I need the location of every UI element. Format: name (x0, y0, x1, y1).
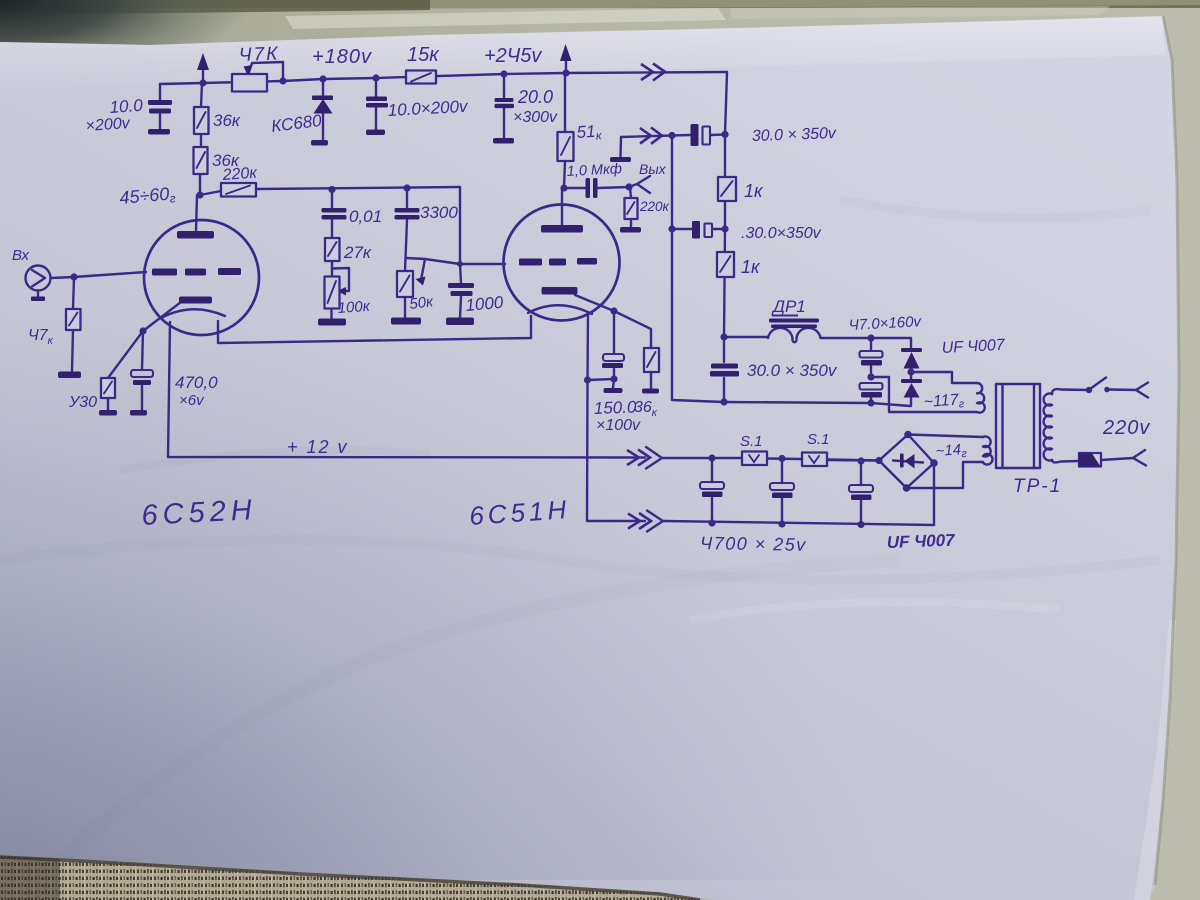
chevrons B+ rail (641, 64, 653, 80)
wire heater link V2 to V1 (218, 316, 531, 343)
doubler cap B solid plate (861, 392, 882, 398)
zener KC680 cathode bar (312, 96, 333, 101)
svg-text:У30: У30 (68, 394, 97, 411)
wire B+ top rail (160, 72, 727, 84)
diode D1 bar and triangle (901, 348, 922, 352)
potentiometer 100k wiper (332, 268, 349, 291)
plug fork bottom (1133, 450, 1146, 466)
resistor 36k V2 body (644, 348, 659, 372)
pot 100k wiper arrowhead (337, 287, 346, 296)
svg-text:1,0 Мкф: 1,0 Мкф (566, 161, 622, 180)
svg-text:Вых: Вых (639, 161, 667, 177)
coupling cap 1.0Mkf plates (586, 178, 591, 198)
paper creases / shading (0, 540, 1160, 580)
cap C10 hollow plate (700, 482, 724, 489)
svg-text:150.0: 150.0 (593, 398, 637, 418)
arrow B+ left head (197, 53, 209, 70)
output stub Vykh (629, 176, 650, 193)
svg-text:ТР-1: ТР-1 (1013, 476, 1062, 497)
svg-text:220к: 220к (639, 199, 670, 214)
wire 220k rail down to grid node (459, 187, 461, 264)
ground bar output line (610, 157, 631, 162)
capacitor C5 3300 stems (405, 188, 407, 271)
chevrons heater bottom (628, 514, 640, 529)
svg-text:S.1: S.1 (807, 431, 830, 448)
pot 50k wiper arrowhead (416, 277, 426, 286)
wire right column drop (724, 72, 727, 362)
ground bar C2 (366, 130, 385, 136)
pot 47K wiper arrowhead (244, 65, 253, 76)
node B+ arrow left stem (202, 68, 204, 83)
cap 30.0-1 hollow plate (703, 127, 711, 145)
ground bar R9 36k (642, 389, 659, 394)
resistor R6 47k input body (66, 309, 81, 330)
cap C7 150.0 hollow plate (603, 354, 624, 361)
potentiometer 47K wiper (249, 62, 283, 80)
svg-text:UF Ч007: UF Ч007 (941, 337, 1006, 357)
tube V1 anode lead (196, 195, 197, 231)
wire 14v winding bottom to bridge bottom (907, 462, 984, 488)
tube V2 cathode diagonal (575, 295, 614, 311)
diode D1 stems (910, 338, 912, 372)
svg-text:1000: 1000 (465, 293, 505, 315)
svg-text:30.0 × 350v: 30.0 × 350v (747, 361, 838, 380)
capacitor C2 plates (366, 97, 387, 102)
wire secondary top lead (1052, 389, 1088, 394)
wire switch to plug (1109, 388, 1137, 391)
potentiometer 100k body (325, 277, 340, 309)
potentiometer 47K body (232, 74, 267, 92)
fuse S.1 first body (742, 452, 767, 466)
zener KC680 stems (322, 79, 324, 140)
plug fork heater bottom (647, 511, 663, 532)
resistor R7 U30 lead (108, 331, 143, 410)
ground bar C3 (493, 138, 514, 144)
svg-text:50к: 50к (408, 293, 435, 313)
wire V2 heater to bottom rail (587, 315, 645, 521)
ground bar R5 220k output (620, 227, 641, 233)
capacitor C12 4700x25v stems (860, 461, 862, 525)
wire PSU common rail (724, 402, 910, 406)
capacitor C1 10.0x200v stem (159, 84, 161, 129)
cap C11 solid plate (772, 493, 793, 499)
svg-text:×300v: ×300v (513, 109, 558, 126)
potentiometer 50k body (397, 271, 413, 297)
svg-text:220к: 220к (221, 165, 259, 185)
cap 30.0-1 solid plate (691, 124, 699, 146)
diode D2 bar and triangle (901, 379, 922, 383)
ground bar C1 (148, 129, 170, 135)
resistor diagonal marks (411, 73, 431, 82)
wire cap C7 bottom to heater line (588, 379, 615, 380)
svg-text:+2Ч5v: +2Ч5v (484, 45, 542, 67)
fuse 220v body (1079, 453, 1101, 467)
cap C8 cathode hollow plate (131, 370, 153, 377)
diode D2 stems (910, 372, 912, 406)
cap C7 150.0 solid plate (602, 363, 623, 368)
winding 220v secondary (1044, 393, 1052, 460)
svg-text:1к: 1к (744, 181, 764, 201)
cap 30.0-2 hollow plate (705, 224, 713, 238)
zener KC680 triangle (314, 99, 333, 114)
resistor R4 51k stems (564, 73, 565, 188)
svg-text:×200v: ×200v (85, 115, 131, 135)
capacitor C4 0.01 stems (331, 190, 333, 239)
ground bar 50k (391, 318, 421, 325)
svg-text:10.0: 10.0 (109, 96, 144, 117)
ground bar KC680 (311, 140, 328, 146)
potentiometer 100k ground stem (330, 309, 332, 319)
resistor 220k output body (625, 198, 638, 219)
ground bar C8 cathode cap (130, 410, 147, 416)
resistor 36k body lower (194, 147, 208, 174)
svg-text:6С52Н: 6С52Н (141, 494, 258, 532)
svg-text:+ 12 v: + 12 v (287, 437, 349, 457)
ground wire output line (621, 135, 691, 157)
plug fork top (1136, 383, 1148, 398)
capacitor C6 1000 stems (460, 264, 461, 318)
plug fork heater top (646, 447, 662, 469)
wire heater top rail PSU (662, 458, 879, 461)
doubler cap A hollow plate (860, 351, 883, 358)
capacitor C6 1000 plates (448, 283, 474, 288)
potentiometer 50k ground stem (404, 297, 406, 318)
ground bar 100k (318, 319, 346, 326)
capacitor C4 0.01 plates (322, 208, 347, 213)
ground bar input jack (31, 297, 45, 302)
capacitor C10 4700x25v stems (711, 458, 713, 523)
arrow B+ right head (560, 44, 572, 61)
wire doubler midpoint to 117v winding (871, 377, 977, 412)
tube V1 6S52N envelope (144, 220, 259, 335)
svg-text:Ч700 × 25v: Ч700 × 25v (700, 533, 807, 555)
svg-text:UF Ч007: UF Ч007 (886, 531, 956, 552)
doubler caps C 47.0x160v stems (870, 338, 872, 403)
svg-text:ДР1: ДР1 (771, 297, 806, 316)
underline DR1 (772, 315, 798, 317)
choke DR1 core bars (769, 319, 819, 323)
fuse V marks (749, 455, 759, 462)
capacitor C11 4700x25v stems (781, 459, 783, 525)
wire grid V2 (460, 263, 505, 265)
wire cap30-1 to column (711, 133, 725, 136)
svg-text:×6v: ×6v (179, 392, 205, 409)
svg-text:0,01: 0,01 (349, 207, 382, 226)
capacitor C3 20.0x300v stems (503, 74, 505, 138)
resistor R7 U30 body (101, 378, 115, 398)
doubler cap B hollow plate (860, 383, 883, 390)
transformer TP-1 core (996, 384, 1040, 468)
tube V2 6S51N envelope (504, 205, 620, 321)
resistor 15k body (406, 71, 436, 84)
wire common vertical x672 (672, 136, 724, 403)
capacitor C3 plates (495, 98, 514, 102)
tube V2 anode bar (541, 225, 583, 233)
svg-text:×100v: ×100v (596, 417, 641, 434)
wire cap30-2 links (672, 228, 725, 230)
resistor R5 220k stems (630, 187, 631, 227)
capacitor C5 3300 plates (395, 208, 420, 213)
resistor R6 47k input stems (72, 277, 74, 371)
svg-text:27к: 27к (343, 243, 372, 262)
resistor 1k lower body (717, 252, 734, 277)
capacitor C2 10.0x200v stems (375, 78, 377, 130)
capacitor C7 150.0 stems (613, 311, 614, 388)
wire fuse to plug bottom (1101, 458, 1133, 460)
tube V1 cathode bar (179, 297, 212, 304)
bridge rectifier VD diamond (879, 435, 934, 489)
cap 30.0-2 solid plate (692, 221, 700, 239)
switch SA1 lever (1090, 378, 1106, 390)
resistor 51k body (558, 132, 574, 161)
wire secondary bottom lead (1052, 460, 1079, 462)
wire diode mid to 117v winding top (911, 372, 977, 383)
resistor 36k body upper (194, 107, 209, 134)
resistor R1 36k chain wires (200, 83, 202, 195)
resistor R9 36k leads (614, 311, 651, 389)
cap C8 cathode solid plate (133, 380, 151, 385)
ground bar C6 1000 (446, 318, 474, 326)
svg-text:S.1: S.1 (740, 433, 763, 450)
cap 30.0x350v PSU solid plates (711, 364, 738, 369)
tube V2 cathode bar (542, 287, 578, 295)
tube V1 grid dashes (152, 269, 177, 276)
tube V2 heater arc (528, 305, 592, 314)
ground bar C7 150.0 (604, 388, 623, 393)
svg-text:.30.0×350v: .30.0×350v (741, 225, 822, 242)
wire PSU bottom rail (664, 521, 935, 525)
doubler cap A solid plate (861, 360, 882, 366)
capacitor C1 plates (148, 100, 172, 105)
ground bar R7 U30 (99, 410, 117, 416)
newspaper strip under paper bottom edge (1155, 16, 1179, 885)
tube V2 anode lead (561, 188, 563, 225)
cap C12 solid plate (851, 495, 872, 501)
tube V1 cathode leads (143, 302, 181, 331)
svg-text:Вх: Вх (12, 247, 30, 264)
cap C11 hollow plate (770, 483, 794, 490)
fuse S.1 second body (802, 453, 827, 467)
wire 45-60 node to 220k rail (200, 187, 460, 195)
choke DR1 wires and humps (724, 336, 768, 338)
svg-text:100к: 100к (337, 298, 371, 317)
bridge inner diode (900, 454, 904, 468)
svg-text:470,0: 470,0 (175, 373, 218, 392)
bridge inner diode line (893, 461, 923, 463)
resistor R8 27k bottom stem (331, 261, 333, 277)
potentiometer 50k wiper and grid wire (406, 258, 460, 280)
cap C10 solid plate (702, 492, 723, 498)
node B+ arrow right stem (565, 58, 567, 73)
svg-text:+180v: +180v (312, 46, 372, 68)
resistor 27k body (325, 238, 340, 261)
winding ~117v (977, 383, 985, 413)
resistor 220k body (221, 183, 256, 197)
svg-text:30.0 × 350v: 30.0 × 350v (752, 125, 838, 145)
wire bridge left corner to fuse2 (827, 459, 879, 462)
cap C12 hollow plate (849, 485, 873, 492)
svg-text:3300: 3300 (420, 203, 458, 222)
tube V1 heater arc (163, 309, 225, 317)
wire bridge top to 14v winding (908, 435, 983, 438)
ground bar R6 47k (58, 372, 81, 379)
svg-text:Ч7К: Ч7К (238, 44, 279, 66)
input jack Vkh circle (26, 266, 51, 291)
wire bridge right corner down (933, 463, 935, 525)
junction dots (199, 79, 206, 86)
tube V2 grid dashes (519, 259, 542, 266)
tube V1 anode bar (177, 231, 214, 239)
wire +12v rail from V1 (168, 322, 645, 458)
svg-text:15к: 15к (407, 44, 440, 66)
chevrons +12v rail (627, 450, 639, 465)
wire anode V2 to coupling cap (564, 187, 629, 188)
svg-text:20.0: 20.0 (517, 87, 553, 107)
winding ~14v (983, 436, 992, 464)
svg-text:220v: 220v (1102, 417, 1150, 439)
wire grid V1 (74, 272, 146, 277)
fuse 220v filled half (1079, 454, 1101, 467)
chevrons output common line (640, 128, 651, 144)
svg-text:1к: 1к (741, 257, 761, 277)
resistor 1k upper body (718, 177, 736, 201)
svg-text:36к: 36к (213, 111, 241, 130)
